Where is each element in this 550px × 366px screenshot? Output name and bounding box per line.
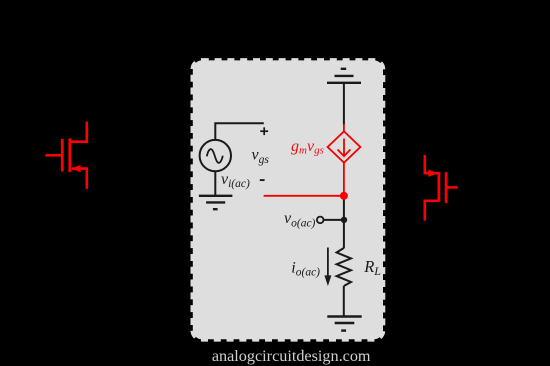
ac source Vi wire to gate <box>215 123 263 140</box>
vo terminal open circle <box>317 217 324 224</box>
ground (top, above controlled source) <box>327 69 361 83</box>
current io arrow <box>327 248 329 278</box>
wire output node down <box>343 196 345 248</box>
transistor M1 source arrow <box>71 165 80 172</box>
controlled source gmvgs diamond <box>328 124 361 196</box>
ground (bottom, under RL) <box>327 317 361 331</box>
wire RL to ground <box>343 286 345 317</box>
svg-text:analogcircuitdesign.com: analogcircuitdesign.com <box>212 347 371 365</box>
transistor M2 (right NMOS, mirrored) <box>425 155 458 221</box>
small-signal model dashed box <box>193 60 383 339</box>
plus sign <box>260 127 268 135</box>
ground (under Vi) <box>199 196 233 209</box>
wire to vo terminal <box>323 219 344 221</box>
wire ground to source <box>343 84 345 125</box>
resistor RL zigzag <box>337 248 351 286</box>
wire source minus to output node (red) <box>264 195 344 197</box>
junction node (red) <box>340 192 348 200</box>
ac source sine <box>207 149 223 163</box>
transistor M2 source arrow <box>428 170 437 177</box>
transistor M1 (left NMOS) <box>45 122 86 189</box>
ac source bottom wire <box>214 171 216 196</box>
junction dot vo <box>341 217 347 223</box>
ac source Vi circle <box>200 140 231 171</box>
minus sign <box>260 179 265 181</box>
